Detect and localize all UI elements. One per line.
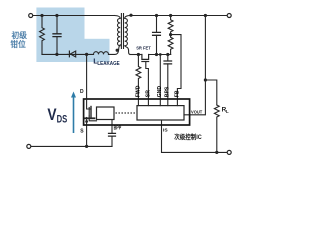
svg-text:D: D	[80, 89, 84, 95]
IC package outline	[84, 99, 190, 125]
VOUT rail vertical	[184, 16, 205, 115]
svg-text:GND: GND	[157, 86, 163, 98]
clamp resistor R vertical	[40, 16, 45, 55]
secondary bottom rail	[162, 120, 228, 152]
output capacitor leads	[156, 16, 158, 55]
wire top rail left	[33, 15, 115, 17]
secondary wire after FET	[149, 54, 171, 56]
transformer secondary polarity dot	[129, 14, 132, 17]
primary controller block	[97, 107, 115, 120]
leakage inductor coil	[94, 52, 109, 55]
SR pin wire	[146, 62, 149, 106]
svg-text:L: L	[226, 109, 229, 114]
leakage highlight box	[85, 39, 110, 62]
node dot output cap bottom	[155, 53, 158, 56]
svg-text:FB: FB	[174, 90, 180, 97]
svg-text:IS: IS	[163, 127, 168, 133]
feedback divider upper resistor	[168, 16, 173, 35]
node dot divider tap	[169, 33, 172, 36]
output terminal top right	[227, 14, 231, 18]
clamp diode triangle	[70, 51, 75, 57]
feedback divider lower resistor	[168, 35, 173, 55]
svg-text:次级控制IC: 次级控制IC	[174, 132, 202, 141]
clamp diode D wire	[67, 53, 93, 55]
node dot clamp C top	[55, 14, 58, 17]
VDS arrow	[73, 97, 75, 134]
primary clamp highlight box	[36, 8, 84, 63]
output terminal bottom right	[227, 150, 231, 154]
svg-text:DS: DS	[57, 114, 68, 126]
input terminal bottom left	[27, 144, 31, 148]
svg-text:V: V	[47, 106, 56, 124]
primary MOSFET channel bar	[90, 107, 92, 118]
wire top rail right	[130, 15, 227, 17]
output capacitor plates	[153, 32, 161, 35]
node dot BPS	[166, 53, 169, 56]
svg-text:钳位: 钳位	[10, 39, 26, 49]
transformer core lines	[121, 14, 123, 49]
node dot drain	[85, 53, 88, 56]
primary bottom rail	[31, 145, 112, 147]
primary MOSFET drain lead	[87, 99, 91, 109]
svg-text:FWD: FWD	[135, 85, 141, 97]
BPP pin wire with capacitor	[111, 120, 113, 147]
SR FET gate bar	[142, 61, 149, 63]
node dot clamp R top	[40, 14, 43, 17]
transformer primary winding	[115, 16, 121, 46]
GND pin wire	[159, 55, 161, 106]
BPP capacitor plates	[109, 133, 116, 136]
svg-text:初级: 初级	[12, 30, 28, 40]
BPS capacitor plates	[164, 61, 172, 64]
wire coil to primary winding	[109, 45, 121, 55]
node dot output cap top	[155, 14, 158, 17]
clamp bottom wire	[42, 53, 67, 55]
FB tap wire	[171, 35, 181, 106]
node dot FWD	[137, 53, 140, 56]
BPS pin wire with capacitor	[167, 55, 169, 106]
node dot load branch	[204, 78, 207, 81]
svg-text:BPP: BPP	[114, 126, 122, 132]
svg-text:SR FET: SR FET	[136, 46, 151, 52]
node dot GND	[159, 53, 162, 56]
FWD pin wire with resistor	[136, 55, 141, 106]
primary MOSFET source lead	[85, 117, 95, 119]
primary source wire	[86, 118, 88, 147]
svg-text:BPS: BPS	[165, 86, 171, 97]
node dot clamp C bottom	[55, 53, 58, 56]
clamp capacitor C leads	[56, 16, 58, 55]
clamp capacitor C plates	[53, 34, 61, 37]
load branch wire	[205, 80, 216, 105]
drain vertical wire	[86, 54, 88, 99]
load resistor RL	[214, 105, 219, 152]
primary MOSFET source node dot	[85, 120, 88, 123]
svg-text:LEAKAGE: LEAKAGE	[97, 61, 120, 67]
svg-text:SR: SR	[145, 90, 151, 97]
node dot vout rail top	[204, 14, 207, 17]
transformer primary polarity dot	[116, 49, 119, 52]
secondary wire to SR FET	[130, 54, 142, 56]
node dot divider top	[169, 14, 172, 17]
input terminal top left	[29, 14, 33, 18]
transformer secondary winding	[125, 16, 131, 55]
FluxLink dotted line	[116, 112, 137, 114]
svg-text:VOUT: VOUT	[191, 109, 202, 115]
primary MOSFET gate bar	[88, 108, 90, 117]
node dot load bottom	[215, 151, 218, 154]
SR FET drain dip	[142, 55, 149, 60]
primary MOSFET gate lead	[89, 116, 96, 121]
secondary controller block	[137, 106, 184, 120]
node dot source rail	[85, 145, 88, 148]
clamp diode cathode bar	[68, 51, 70, 57]
